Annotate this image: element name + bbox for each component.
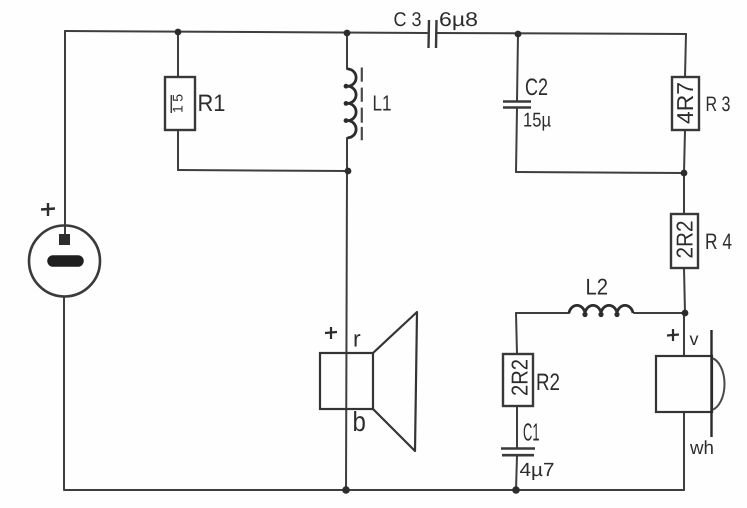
inductor L1 coil curls <box>344 84 349 123</box>
source inner bar <box>53 255 78 267</box>
capacitor C2 plates <box>503 102 531 108</box>
tweeter box <box>656 356 712 412</box>
wire R1 top drop <box>177 32 179 77</box>
wire R1 to L1 horizontal <box>178 170 348 171</box>
source inner terminal square <box>59 234 70 245</box>
tweeter axis line <box>710 330 712 437</box>
wire L1 node to speaker and bottom rail <box>346 171 347 490</box>
wire L1 bottom lead <box>346 138 348 171</box>
wire top-right horizontal (C3 to R3) <box>436 33 686 34</box>
wire left vertical upper (to source) <box>64 31 66 234</box>
wire C1 to bottom rail <box>516 456 517 490</box>
tweeter dome <box>712 358 725 410</box>
resistor R1 body <box>165 77 195 130</box>
inductor L2 coil curls <box>582 312 619 317</box>
wire R3 top lead <box>685 34 686 77</box>
wire C2 to R3/R4 node horizontal <box>516 172 684 173</box>
svg-text:wh: wh <box>689 438 714 459</box>
wire C2 bottom lead <box>516 108 517 172</box>
junction node R4-L2-tweeter <box>682 310 689 317</box>
svg-text:C1: C1 <box>523 420 540 447</box>
wire R3 bottom lead <box>684 130 685 173</box>
inductor L1 coil <box>348 69 357 138</box>
wire top-left horizontal (source + to C3) <box>65 31 427 33</box>
source plus sign <box>41 203 55 216</box>
wire tweeter top lead <box>683 313 685 356</box>
svg-text:4R7: 4R7 <box>673 82 698 124</box>
inductor L2 coil <box>569 305 633 313</box>
svg-text:15µ: 15µ <box>523 110 551 132</box>
svg-text:v: v <box>690 329 699 349</box>
svg-text:b: b <box>353 407 366 438</box>
wire L2 to R2 vertical <box>516 313 517 354</box>
svg-text:L1: L1 <box>373 92 392 116</box>
svg-text:C 3: C 3 <box>394 9 422 31</box>
svg-text:6µ8: 6µ8 <box>439 9 478 31</box>
wire L1 top drop <box>346 33 348 69</box>
svg-text:L2: L2 <box>586 275 609 300</box>
svg-text:R1: R1 <box>198 91 226 117</box>
svg-text:R 4: R 4 <box>705 230 732 255</box>
junction node C1 bottom rail <box>512 486 520 494</box>
junction node top C2 <box>515 31 522 38</box>
speaker plus sign <box>325 327 337 339</box>
source generator circle <box>29 226 100 297</box>
svg-text:r: r <box>353 326 361 352</box>
junction node R1-L1 <box>345 168 352 175</box>
wire L2 right lead <box>634 312 685 314</box>
capacitor C1 plates <box>501 449 535 456</box>
wire R4 bottom lead <box>684 268 685 313</box>
resistor R3 body <box>672 77 699 130</box>
wire L2 left lead <box>516 312 569 314</box>
wire R1 bottom lead <box>177 130 179 170</box>
speaker (woofer) cone <box>373 312 417 451</box>
speaker (woofer) box <box>320 353 373 409</box>
svg-text:C2: C2 <box>525 75 548 101</box>
inductor L1 core dashed line <box>361 68 363 141</box>
junction node top R1 <box>175 29 182 36</box>
wire R4 top lead <box>683 173 685 214</box>
wire C2 top drop <box>517 34 518 101</box>
wire bottom rail <box>64 489 684 491</box>
resistor R1 value underline <box>170 95 172 113</box>
junction node speaker bottom rail <box>342 486 350 494</box>
wire tweeter bottom lead <box>683 412 685 490</box>
resistor R4 body <box>671 214 698 268</box>
junction node C2-R3-R4 <box>681 170 688 177</box>
capacitor C3 plates <box>429 20 437 48</box>
svg-text:4µ7: 4µ7 <box>520 460 555 481</box>
svg-text:R2: R2 <box>536 370 560 396</box>
wire R2 to C1 lead <box>516 406 518 448</box>
junction node top L1 <box>344 30 351 37</box>
svg-text:2R2: 2R2 <box>673 221 698 259</box>
svg-text:R 3: R 3 <box>706 93 731 116</box>
svg-text:2R2: 2R2 <box>508 359 533 396</box>
wire left vertical lower (source to bottom rail) <box>63 297 65 489</box>
tweeter plus sign <box>667 329 679 341</box>
resistor R2 body <box>503 354 533 406</box>
